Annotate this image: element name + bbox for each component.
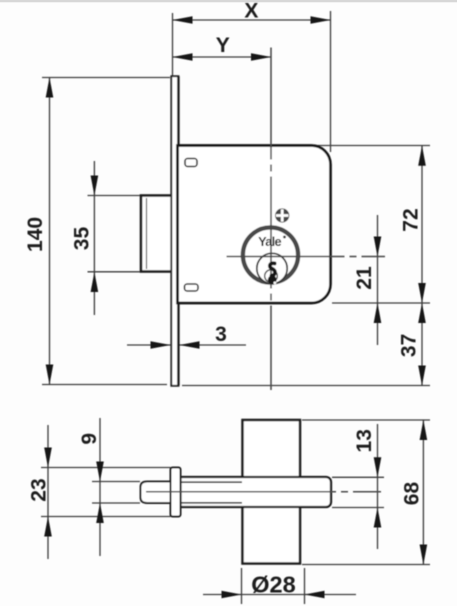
svg-text:21: 21 bbox=[353, 266, 376, 290]
svg-text:3: 3 bbox=[215, 323, 227, 346]
svg-text:X: X bbox=[244, 0, 258, 23]
svg-text:Yale: Yale bbox=[258, 234, 281, 249]
svg-text:35: 35 bbox=[71, 227, 94, 251]
svg-text:9: 9 bbox=[78, 433, 101, 445]
svg-text:Y: Y bbox=[216, 34, 230, 57]
svg-text:13: 13 bbox=[353, 429, 376, 452]
svg-text:72: 72 bbox=[400, 208, 423, 231]
svg-text:37: 37 bbox=[397, 334, 420, 357]
svg-text:68: 68 bbox=[401, 482, 424, 506]
svg-text:Ø28: Ø28 bbox=[251, 572, 295, 598]
svg-text:23: 23 bbox=[28, 478, 51, 501]
svg-text:140: 140 bbox=[24, 217, 47, 252]
